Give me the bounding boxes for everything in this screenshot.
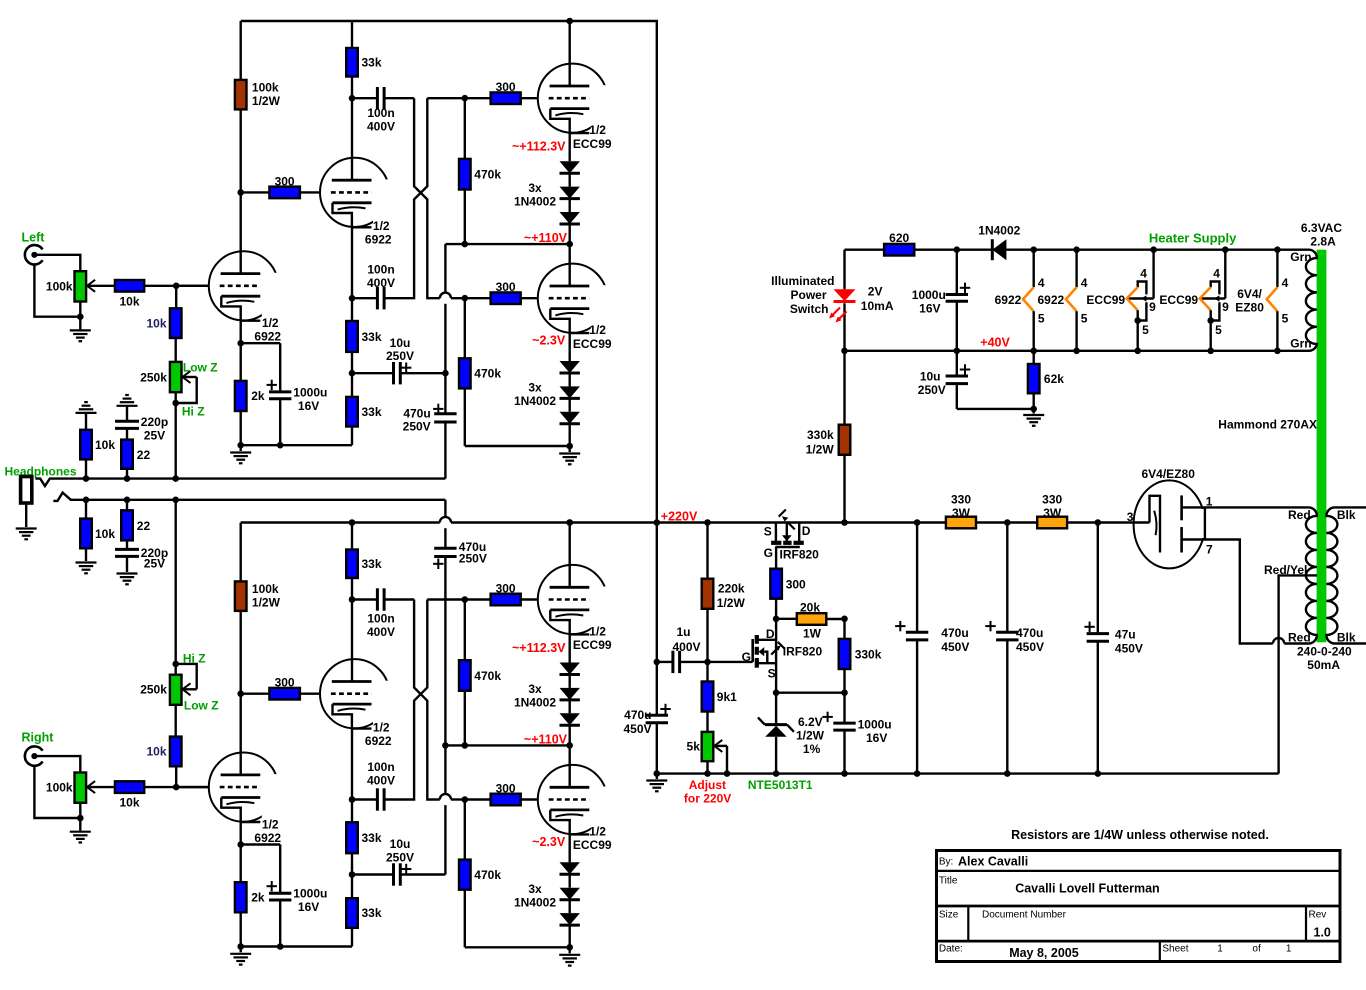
resistor 470k upper: [464, 600, 466, 661]
resistor 22 right: [126, 500, 128, 511]
resistor 62k: [1032, 351, 1034, 364]
capacitor 1000u 16V cathode bypass: [269, 892, 291, 895]
wire jack sleeve to pot bottom: [34, 765, 80, 818]
resistor 10k zobel right: [85, 500, 87, 519]
ground at input jack: [79, 818, 81, 831]
resistor 100k 1/2W plate load: [235, 581, 247, 611]
wire heater feed down to +220V rail: [843, 250, 845, 290]
svg-text:3W: 3W: [952, 506, 971, 520]
wire rail junction to grid node: [427, 97, 465, 99]
svg-text:1N4002: 1N4002: [514, 394, 556, 408]
wire rail to 33k: [351, 21, 353, 48]
resistor 300 coupling: [269, 688, 300, 700]
svg-text:400V: 400V: [367, 774, 395, 788]
wire grid lead: [176, 285, 209, 287]
svg-text:470u: 470u: [624, 708, 651, 722]
resistor 330 3W first: [946, 517, 976, 529]
svg-text:Switch: Switch: [790, 302, 829, 316]
node ground 47u: [1095, 770, 1102, 777]
triode V4 1/2 ECC99 lower output right channel: [538, 765, 607, 834]
svg-text:250V: 250V: [459, 552, 487, 566]
wire rail junction to grid node: [427, 598, 465, 600]
svg-text:Cavalli Lovell Futterman: Cavalli Lovell Futterman: [1015, 881, 1159, 895]
resistor 33k upper: [346, 48, 358, 77]
resistor 330 3W second: [1037, 517, 1067, 529]
svg-text:3x: 3x: [528, 181, 542, 195]
svg-text:330k: 330k: [855, 648, 882, 662]
svg-text:100n: 100n: [367, 263, 394, 277]
wire 300 to divider: [775, 599, 777, 619]
capacitor 220p 25V right: [126, 540, 128, 549]
wire headphone bus to output cap right: [444, 500, 446, 517]
resistor 33k lower: [346, 898, 358, 928]
svg-text:100n: 100n: [367, 611, 394, 625]
resistor 9k1: [706, 662, 708, 682]
wire cathode to bypass cap: [241, 342, 281, 344]
resistor 330k: [843, 619, 845, 639]
svg-text:NTE5013T1: NTE5013T1: [748, 778, 813, 792]
resistor 620: [884, 244, 914, 256]
svg-text:Hammond 270AX: Hammond 270AX: [1218, 418, 1317, 432]
ground at diode chain: [569, 947, 571, 953]
node diode ground junction: [566, 443, 573, 450]
wire 33k to plate node: [351, 77, 353, 99]
svg-text:300: 300: [496, 582, 516, 596]
svg-text:Low Z: Low Z: [184, 699, 219, 713]
node 470k 110V junction: [462, 241, 469, 248]
svg-text:ECC99: ECC99: [573, 337, 612, 351]
svg-text:10mA: 10mA: [861, 299, 894, 313]
svg-text:5: 5: [1142, 323, 1149, 337]
svg-text:Document Number: Document Number: [982, 910, 1067, 921]
wire 33k to 10u node: [351, 352, 353, 373]
svg-text:6922: 6922: [365, 734, 392, 748]
svg-text:100k: 100k: [252, 81, 279, 95]
svg-text:2k: 2k: [251, 389, 265, 403]
resistor 330k 1/2W: [839, 425, 851, 455]
svg-text:Power: Power: [790, 288, 826, 302]
node 1u junction: [654, 659, 661, 666]
svg-text:Red: Red: [1288, 508, 1311, 522]
svg-text:330k: 330k: [807, 428, 834, 442]
wire top rail to ECC99 anode: [569, 523, 571, 588]
ground below 10k right: [85, 548, 87, 561]
node pot bottom junction: [172, 400, 179, 407]
wire jack sleeve to pot bottom: [34, 263, 80, 316]
node rail 47u: [1095, 519, 1102, 526]
svg-text:1/2: 1/2: [262, 316, 279, 330]
svg-text:400V: 400V: [672, 640, 700, 654]
resistor 33k middle: [346, 822, 358, 853]
wire jack tip to volume pot: [34, 255, 80, 271]
svg-text:~2.3V: ~2.3V: [532, 835, 566, 849]
svg-text:Red/Yel: Red/Yel: [1264, 563, 1307, 577]
Left input jack: [25, 245, 43, 264]
capacitor 100n 400V upper: [352, 598, 377, 600]
svg-text:4: 4: [1282, 276, 1289, 290]
wire crossover B: [384, 600, 427, 800]
node rail 470u second: [1004, 519, 1011, 526]
svg-text:470k: 470k: [474, 868, 501, 882]
node diode ground junction: [566, 944, 573, 951]
volume pot 100k: [75, 773, 87, 803]
wire input cathode down: [239, 822, 241, 845]
svg-text:20k: 20k: [800, 600, 820, 614]
wire source node: [776, 692, 844, 694]
node ground 470u first: [914, 770, 921, 777]
svg-text:300: 300: [496, 80, 516, 94]
svg-text:470u: 470u: [1016, 626, 1043, 640]
svg-text:1000u: 1000u: [293, 385, 327, 399]
capacitor 100n 400V lower: [352, 798, 377, 800]
wire to 33k mid: [351, 800, 353, 823]
resistor 10k zobel left: [80, 430, 92, 460]
node 110V junction: [566, 241, 573, 248]
resistor 300 ECC99 grid lower: [491, 292, 521, 304]
svg-text:100k: 100k: [46, 279, 73, 293]
svg-text:4: 4: [1140, 267, 1147, 281]
svg-text:62k: 62k: [1044, 372, 1064, 386]
wire cap line to 10u node: [444, 745, 446, 794]
capacitor 470u 250V output left: [444, 373, 446, 414]
svg-text:9k1: 9k1: [717, 690, 737, 704]
wire cap to headphone bus: [444, 422, 446, 479]
wire rail to 33k: [351, 523, 353, 550]
svg-text:1/2W: 1/2W: [717, 596, 746, 610]
svg-text:ECC99: ECC99: [573, 137, 612, 151]
svg-text:4: 4: [1213, 267, 1220, 281]
node driver cathode junction: [349, 295, 356, 302]
node rail left-channel feed: [654, 519, 661, 526]
svg-text:Low Z: Low Z: [183, 361, 218, 375]
capacitor 470u 450V first: [916, 523, 918, 633]
svg-text:3: 3: [1127, 510, 1134, 524]
wire pot node to headphone bus: [174, 403, 176, 479]
node 10u junction: [349, 871, 356, 878]
svg-text:D: D: [802, 524, 811, 538]
title block sheet divider: [1159, 941, 1161, 962]
svg-text:1/2W: 1/2W: [252, 94, 281, 108]
node 10u junction: [349, 370, 356, 377]
svg-text:250k: 250k: [140, 370, 167, 384]
svg-text:Right: Right: [22, 731, 55, 745]
resistor 33k upper: [346, 550, 358, 579]
node 110V junction: [566, 742, 573, 749]
node 2k ground junction: [237, 943, 244, 950]
svg-text:+40V: +40V: [980, 336, 1010, 350]
wire center tap to ground bus: [1279, 575, 1309, 773]
capacitor 470u 250V output right: [434, 547, 456, 550]
title block frame: [937, 851, 1341, 962]
node input grid junction: [173, 784, 180, 791]
wire to 33k lower: [351, 875, 353, 899]
svg-text:16V: 16V: [919, 302, 940, 316]
svg-text:22: 22: [137, 519, 151, 533]
svg-text:IRF820: IRF820: [783, 644, 823, 658]
svg-text:Rev: Rev: [1309, 910, 1327, 921]
svg-text:2k: 2k: [251, 891, 265, 905]
wire 110V node to output cap: [444, 244, 446, 293]
wire 10k to 250k pot: [174, 705, 176, 737]
node driver cathode junction: [349, 796, 356, 803]
diodes 3x 1N4002 lower chain: [569, 333, 571, 361]
wire 33k to cathode bus: [351, 427, 353, 446]
triode V3 1/2 ECC99 upper output right channel: [538, 565, 607, 634]
node jack ground junction: [77, 815, 84, 822]
node ECC99 grid junction: [462, 596, 469, 603]
svg-text:1/2: 1/2: [589, 323, 606, 337]
svg-text:1000u: 1000u: [858, 718, 892, 732]
wire headphone ring bus: [53, 493, 445, 501]
triode V1 1/2 6922 input right channel: [209, 753, 278, 822]
svg-text:1/2: 1/2: [373, 720, 390, 734]
resistor 300 coupling: [269, 187, 300, 199]
capacitor 100n 400V lower: [352, 297, 377, 299]
svg-text:33k: 33k: [362, 831, 382, 845]
svg-text:~+112.3V: ~+112.3V: [512, 641, 566, 655]
svg-text:450V: 450V: [1016, 640, 1044, 654]
svg-text:6.3VAC: 6.3VAC: [1301, 221, 1342, 235]
node ground 470u second: [1004, 770, 1011, 777]
node pot top junction: [172, 661, 179, 668]
svg-text:ECC99: ECC99: [1086, 293, 1125, 307]
svg-text:6V4/EZ80: 6V4/EZ80: [1142, 467, 1196, 481]
diodes 3x 1N4002 lower chain: [569, 834, 571, 862]
svg-text:5: 5: [1215, 323, 1222, 337]
svg-text:+220V: +220V: [661, 509, 698, 523]
node 470k 110V junction: [462, 742, 469, 749]
svg-text:1/2: 1/2: [589, 625, 606, 639]
svg-text:Adjust: Adjust: [689, 778, 726, 792]
svg-text:330: 330: [1042, 493, 1062, 507]
wire driver anode lead: [351, 98, 353, 180]
svg-text:33k: 33k: [362, 906, 382, 920]
svg-text:33k: 33k: [362, 405, 382, 419]
svg-text:10k: 10k: [146, 745, 166, 759]
svg-text:9: 9: [1222, 300, 1229, 314]
wire pot wiper tie-up: [176, 664, 197, 689]
wire gate to 300: [775, 547, 777, 569]
wire 33k to plate node: [351, 578, 353, 600]
node gate divider junction: [704, 659, 711, 666]
svg-text:240-0-240: 240-0-240: [1297, 645, 1352, 659]
capacitor 10u 250V heater: [956, 351, 958, 376]
LED illuminated power switch 2V 10mA: [834, 289, 856, 301]
node tip bus 10k: [83, 475, 90, 482]
node cap ground junction: [277, 943, 284, 950]
resistor 100k 1/2W plate load: [235, 80, 247, 110]
grid leak resistor 10k: [170, 308, 182, 338]
wire 5k wiper to ground bus: [726, 746, 728, 774]
svg-text:for 220V: for 220V: [684, 792, 731, 806]
resistor 470k lower: [464, 800, 466, 860]
svg-text:3x: 3x: [528, 381, 542, 395]
svg-text:10u: 10u: [390, 837, 411, 851]
svg-text:100k: 100k: [252, 582, 279, 596]
node lower grid junction: [462, 295, 469, 302]
node ring bus 10k: [83, 497, 90, 504]
wire jack tip to volume pot: [34, 756, 80, 772]
capacitor 470u 450V output side: [656, 662, 658, 715]
wire 100k to plate node: [239, 611, 241, 775]
svg-text:2.8A: 2.8A: [1310, 235, 1336, 249]
wire ECC99 anode to 110V node: [569, 745, 571, 787]
svg-text:470k: 470k: [474, 367, 501, 381]
svg-text:D: D: [766, 627, 775, 641]
svg-text:By:: By:: [939, 857, 953, 868]
svg-text:470u: 470u: [403, 406, 430, 420]
svg-text:Blk: Blk: [1337, 631, 1356, 645]
resistor 220k 1/2W: [706, 523, 708, 579]
svg-text:1: 1: [1217, 944, 1223, 955]
wire 10k to grid node: [144, 786, 209, 788]
wire pot bottom to ground node: [79, 803, 81, 818]
wire crossover B: [384, 98, 427, 298]
svg-text:16V: 16V: [298, 900, 319, 914]
svg-text:100n: 100n: [367, 760, 394, 774]
transformer heater winding 6.3VAC: [1306, 250, 1317, 351]
transformer HV secondary winding: [1306, 507, 1317, 643]
node ring bus pot: [172, 497, 179, 504]
node 62k ground junction: [1030, 406, 1037, 413]
wire grid-leak return: [465, 946, 570, 948]
wire pot bottom to ground node: [79, 302, 81, 317]
svg-text:16V: 16V: [298, 399, 319, 413]
node source left: [773, 689, 780, 696]
ground at cathode bus: [239, 445, 241, 451]
ground at headphone jack: [16, 527, 37, 529]
node rail 470u first: [914, 519, 921, 526]
wire grid-leak return: [465, 445, 570, 447]
svg-text:7: 7: [1206, 542, 1213, 556]
svg-text:~+110V: ~+110V: [524, 231, 568, 245]
triode V3 1/2 ECC99 upper output left channel: [538, 64, 607, 133]
svg-text:of: of: [1252, 944, 1261, 955]
node ring bus 22: [124, 497, 131, 504]
wire 220k to gate node: [706, 609, 708, 662]
svg-text:33k: 33k: [362, 56, 382, 70]
svg-text:4: 4: [1081, 276, 1088, 290]
svg-text:1N4002: 1N4002: [514, 696, 556, 710]
wire top B+ rail: [241, 21, 657, 523]
node rail 220k: [704, 519, 711, 526]
wire 33k to cathode bus: [351, 928, 353, 947]
svg-text:1: 1: [1286, 944, 1292, 955]
svg-text:220p: 220p: [141, 415, 168, 429]
capacitor 100n 400V upper: [352, 97, 377, 99]
svg-text:450V: 450V: [1115, 642, 1143, 656]
wire driver anode lead: [351, 600, 353, 682]
svg-text:1/2: 1/2: [262, 818, 279, 832]
svg-text:4: 4: [1038, 276, 1045, 290]
Right input jack: [25, 746, 43, 765]
svg-text:1/2: 1/2: [373, 219, 390, 233]
svg-text:450V: 450V: [623, 722, 651, 736]
wire cathode return bus: [241, 444, 352, 446]
resistor 470k lower: [464, 298, 466, 358]
svg-text:400V: 400V: [367, 276, 395, 290]
node input grid junction: [173, 283, 180, 290]
ground at cathode bus: [239, 947, 241, 953]
wire 10k to grid node: [144, 285, 209, 287]
svg-text:6922: 6922: [365, 233, 392, 247]
svg-text:ECC99: ECC99: [573, 838, 612, 852]
wire pin7 to transformer: [1209, 540, 1273, 644]
capacitor 10u 250V cathode: [352, 873, 394, 875]
title block size divider: [967, 906, 969, 941]
svg-text:6922: 6922: [1037, 293, 1064, 307]
node 2k ground junction: [237, 442, 244, 449]
svg-text:ECC99: ECC99: [1159, 293, 1198, 307]
svg-text:1/2: 1/2: [589, 123, 606, 137]
svg-text:5k: 5k: [687, 740, 701, 754]
wire pot node to headphone bus: [174, 500, 176, 664]
svg-text:470k: 470k: [474, 168, 501, 182]
wire 110V node: [445, 744, 569, 746]
wire top rail to ECC99 anode: [569, 21, 571, 86]
wire 110V node: [445, 243, 569, 245]
heater ECC99 first center-tapped: [1152, 250, 1154, 299]
node ground 470u left: [654, 770, 661, 777]
resistor 22 left: [121, 440, 133, 469]
svg-text:25V: 25V: [144, 557, 165, 571]
svg-text:3x: 3x: [528, 682, 542, 696]
resistor 20k 1W: [776, 618, 797, 620]
svg-text:250V: 250V: [386, 851, 414, 865]
wire heater rail top: [845, 248, 1310, 250]
svg-text:IRF820: IRF820: [780, 548, 820, 562]
transformer core: [1317, 250, 1327, 643]
node ECC99 grid junction: [462, 95, 469, 102]
wire plate pin 7: [1182, 538, 1209, 540]
svg-text:Sheet: Sheet: [1162, 944, 1188, 955]
ground at bus left: [656, 774, 658, 779]
wire to 33k lower: [351, 373, 353, 397]
node rail 33k right: [349, 519, 356, 526]
svg-text:5: 5: [1282, 312, 1289, 326]
resistor 300 ECC99 grid upper: [491, 92, 521, 104]
trimpot 5k: [702, 732, 714, 761]
wire input cathode down: [239, 321, 241, 344]
capacitor 220p 25V left: [115, 420, 139, 423]
resistor 33k lower: [346, 397, 358, 427]
svg-text:1/2W: 1/2W: [252, 596, 281, 610]
node rail anode junction: [566, 18, 573, 25]
wire plate pin 1: [1182, 506, 1209, 508]
svg-text:450V: 450V: [941, 640, 969, 654]
svg-text:6922: 6922: [254, 330, 281, 344]
ground at input jack: [79, 317, 81, 330]
node gate bias junction: [773, 616, 780, 623]
svg-text:400V: 400V: [367, 625, 395, 639]
svg-text:1u: 1u: [676, 625, 690, 639]
svg-text:33k: 33k: [362, 557, 382, 571]
svg-text:250V: 250V: [386, 349, 414, 363]
svg-text:300: 300: [786, 577, 806, 591]
wire center tap stub: [1308, 574, 1317, 576]
diodes 3x 1N4002 upper chain: [569, 634, 571, 662]
svg-text:EZ80: EZ80: [1235, 300, 1264, 314]
svg-text:10u: 10u: [920, 369, 941, 383]
svg-text:250V: 250V: [918, 383, 946, 397]
wire cathode to bypass cap: [241, 843, 281, 845]
svg-text:330: 330: [951, 493, 971, 507]
svg-text:~+112.3V: ~+112.3V: [512, 140, 566, 154]
svg-text:6.2V: 6.2V: [798, 715, 823, 729]
transistor Q1 IRF820 upper: [775, 523, 777, 542]
transformer primary winding: [1326, 507, 1366, 643]
svg-text:300: 300: [496, 280, 516, 294]
